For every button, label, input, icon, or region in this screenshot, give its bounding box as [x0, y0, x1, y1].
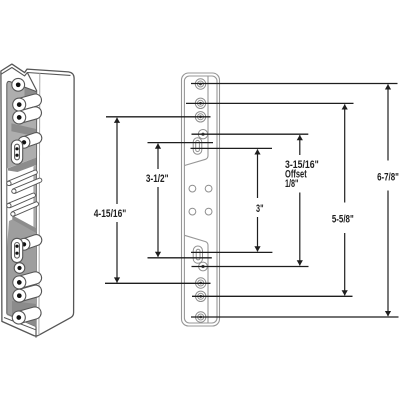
hole top: [12, 78, 25, 91]
top slot: [193, 138, 202, 155]
small circle above top slot: [198, 130, 207, 139]
rod 1: [6, 169, 38, 186]
dim 3-15/16: [299, 135, 301, 155]
rod 2: [11, 177, 43, 194]
hole bottom single: [14, 263, 25, 274]
leader small circle top: [192, 133, 309, 135]
roller F: [11, 283, 43, 303]
roller C: [17, 131, 44, 150]
roller D: [17, 233, 44, 252]
leader bottom slot center: [148, 257, 212, 259]
middle four holes: [189, 185, 196, 192]
silhouette: [1, 64, 74, 336]
top fold: [185, 76, 209, 166]
dim 6-7/8: [387, 84, 389, 160]
leader hole 4: [105, 282, 211, 284]
leader hole 3: [106, 116, 211, 118]
roller B: [11, 105, 43, 125]
svg-text:3": 3": [256, 203, 264, 215]
features inside recess: [6, 78, 43, 325]
top three screw holes: [195, 79, 205, 89]
dim 3-1/2: [157, 144, 159, 169]
dim 4-15/16: [116, 118, 118, 204]
dim 3: [257, 149, 259, 198]
leader hole 6: [191, 316, 399, 318]
svg-text:6-7/8": 6-7/8": [377, 172, 399, 184]
svg-text:4-15/16": 4-15/16": [94, 208, 127, 220]
bottom slot: [193, 246, 202, 263]
leader hole 1: [191, 83, 398, 85]
roller E: [11, 270, 43, 290]
flange second line: [38, 73, 41, 335]
bottom three screw holes: [196, 278, 206, 288]
crease front/flange: [27, 73, 36, 338]
svg-text:3-1/2": 3-1/2": [146, 173, 169, 185]
bottom fold: [185, 235, 209, 323]
leader small circle bottom: [192, 266, 309, 268]
svg-text:1/8": 1/8": [285, 178, 299, 190]
leader hole 5: [192, 295, 353, 297]
slot plate top: [11, 140, 22, 164]
leader hole 2: [186, 102, 354, 104]
leader bottom slot top: [191, 251, 272, 253]
roller G: [11, 305, 43, 325]
small circle below bottom slot: [199, 262, 208, 271]
svg-text:5-5/8": 5-5/8": [332, 214, 354, 226]
leader top slot bottom: [191, 147, 273, 149]
rod 4: [10, 201, 39, 217]
rod 3: [6, 192, 36, 208]
roller A: [11, 92, 43, 112]
leader top slot center: [148, 142, 214, 144]
slot plate bottom: [11, 238, 22, 262]
opening outline strokes: [4, 81, 36, 329]
dim 5-5/8: [344, 104, 346, 202]
recess areas: [7, 81, 37, 327]
top band inner: [1, 68, 71, 76]
